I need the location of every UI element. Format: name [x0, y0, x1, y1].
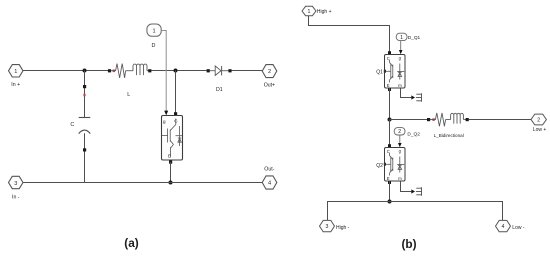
- node junction cap/top: [83, 69, 87, 73]
- node junction collector: [174, 69, 178, 73]
- wire bottom rail: [23, 182, 262, 184]
- port 1 In+: [9, 65, 24, 88]
- IGBT block Q2: [384, 148, 405, 182]
- svg-text:m: m: [398, 176, 402, 181]
- wire L to Low+: [469, 119, 531, 121]
- wire D_Q2 to gate: [399, 135, 401, 145]
- node junction emitter/bottom: [169, 181, 173, 185]
- port 3 High-: [320, 220, 350, 231]
- svg-text:2: 2: [398, 129, 401, 135]
- svg-text:m: m: [398, 83, 402, 88]
- svg-text:High -: High -: [336, 225, 350, 231]
- IGBT block Q1: [384, 55, 405, 89]
- inport D: [147, 24, 161, 49]
- svg-text:3: 3: [14, 181, 17, 187]
- wire emitter drop: [169, 161, 172, 164]
- svg-text:3: 3: [326, 224, 329, 230]
- port 2 Out+: [262, 65, 277, 89]
- wire mid to Q2 collector: [389, 120, 391, 148]
- svg-text:g: g: [163, 119, 166, 124]
- wire Q1 m to terminator: [401, 88, 412, 98]
- svg-text:Out+: Out+: [264, 82, 275, 88]
- port 3 In-: [9, 176, 24, 200]
- wire Q2 emitter down: [388, 181, 391, 184]
- svg-text:D1: D1: [216, 87, 223, 93]
- svg-text:L: L: [127, 92, 130, 98]
- svg-text:D: D: [152, 43, 156, 49]
- port 2 Low+: [531, 114, 546, 133]
- svg-text:1: 1: [308, 9, 311, 15]
- svg-text:1: 1: [14, 69, 17, 75]
- wire Q2 m to terminator: [401, 181, 412, 192]
- wire D_Q1 to gate: [400, 41, 402, 52]
- wire mid to L: [390, 119, 429, 121]
- port 1 High+: [302, 6, 332, 15]
- wire capacitor branch lower: [84, 133, 86, 182]
- svg-text:Low +: Low +: [533, 127, 547, 133]
- terminator Q1 m: [416, 93, 422, 102]
- svg-text:Out-: Out-: [264, 167, 274, 173]
- svg-text:4: 4: [268, 181, 271, 187]
- inport D_Q2: [394, 128, 420, 138]
- svg-text:E: E: [387, 83, 390, 88]
- wire capacitor branch upper: [84, 71, 86, 118]
- svg-text:1: 1: [400, 35, 403, 41]
- port 4 Low-: [496, 220, 525, 231]
- wire bottom rail b: [328, 202, 503, 221]
- port 4 Out-: [262, 167, 277, 190]
- svg-text:(a): (a): [124, 236, 138, 250]
- wire top rail left: [23, 70, 108, 72]
- wire D signal to gate: [161, 31, 166, 113]
- node junction mid: [388, 118, 392, 122]
- svg-text:High +: High +: [317, 9, 332, 15]
- node junction bottom: [388, 200, 392, 204]
- wire High+ to Q1 collector: [309, 16, 390, 55]
- svg-text:Q2: Q2: [376, 163, 383, 169]
- svg-text:In +: In +: [11, 82, 20, 88]
- svg-text:(b): (b): [401, 237, 416, 251]
- wire collector drop: [175, 71, 177, 116]
- IGBT block (a): [162, 116, 183, 161]
- wire top rail right: [232, 70, 263, 72]
- diode D1: [207, 66, 232, 75]
- svg-text:Low -: Low -: [512, 225, 525, 231]
- svg-text:D_Q1: D_Q1: [408, 35, 421, 41]
- inductor L_Bidirectional (series RL branch icon): [427, 113, 469, 126]
- inport D_Q1: [396, 33, 420, 41]
- svg-text:L_Bidirectional: L_Bidirectional: [434, 133, 464, 138]
- svg-text:2: 2: [537, 118, 540, 124]
- inductor L (series RL branch icon): [108, 64, 151, 78]
- svg-text:E: E: [387, 176, 390, 181]
- svg-text:In -: In -: [12, 194, 20, 200]
- wire top rail mid: [151, 70, 206, 72]
- svg-text:Q1: Q1: [376, 69, 383, 75]
- svg-text:D_Q2: D_Q2: [407, 131, 420, 137]
- capacitor C: [79, 118, 91, 134]
- wire Q1 emitter down: [388, 88, 391, 91]
- svg-text:1: 1: [152, 28, 155, 34]
- terminator Q2 m: [416, 187, 422, 196]
- svg-text:2: 2: [268, 69, 271, 75]
- svg-text:4: 4: [502, 224, 505, 230]
- svg-text:C: C: [70, 122, 74, 128]
